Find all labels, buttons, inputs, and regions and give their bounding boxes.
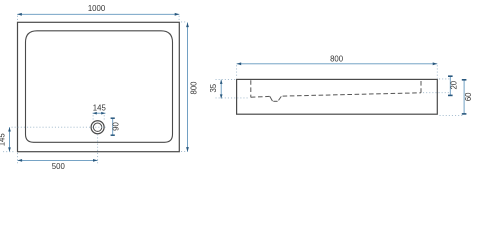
dim 35 bottom arrow <box>220 94 223 98</box>
dim 800 ext dotted bottom <box>181 150 187 152</box>
dim 500 right arrow <box>93 159 98 162</box>
dim 145h right arrow <box>101 112 105 115</box>
dim 800s right arrow <box>433 62 438 65</box>
svg-text:60: 60 <box>464 92 473 101</box>
dim 35 ext dotted bottom <box>216 97 250 99</box>
svg-text:500: 500 <box>52 162 66 171</box>
dim 800 side top: line <box>237 63 438 65</box>
outer tray rectangle <box>18 22 180 151</box>
dotted ext above drain right <box>103 115 105 120</box>
svg-text:800: 800 <box>189 81 198 95</box>
side dashed inner: notch up-slope <box>279 96 282 100</box>
dim 35: line <box>220 80 222 99</box>
svg-text:90: 90 <box>111 122 120 131</box>
inner basin rounded rectangle <box>26 31 173 143</box>
dim 35 top arrow <box>220 80 223 84</box>
svg-text:20: 20 <box>450 80 459 89</box>
svg-text:1000: 1000 <box>88 4 106 13</box>
drain outer circle <box>91 121 104 134</box>
side dashed inner: left vertical <box>250 80 252 97</box>
dim 20: line <box>449 76 451 95</box>
dim 1000 ext dotted left <box>17 16 19 21</box>
dim 20 ext dotted top <box>439 78 449 80</box>
drain inner circle <box>93 123 101 131</box>
dim 90 top end bar <box>111 117 115 119</box>
side dashed inner: floor left of notch <box>251 95 270 98</box>
centerline dotted horizontal through drain <box>12 126 108 128</box>
dim 500 left arrow <box>18 159 23 162</box>
dim 35 ext dotted top <box>216 79 236 81</box>
dim 800s left arrow <box>237 62 242 65</box>
dim 800 top arrow <box>186 23 189 28</box>
dim 800 bottom arrow <box>186 147 189 152</box>
dim 145h left arrow <box>93 112 97 115</box>
svg-text:145: 145 <box>0 133 7 147</box>
svg-text:35: 35 <box>209 83 218 92</box>
dim 1000 left arrow <box>17 13 22 16</box>
dim 20 ext dotted bottom <box>423 92 449 94</box>
dim 145 left side vertical: line <box>9 127 11 151</box>
dim 800s ext dotted left <box>236 65 238 78</box>
dim 800 ext dotted top <box>181 21 187 23</box>
dim 800 right side: line <box>187 23 189 152</box>
dim 145v top arrow <box>8 127 11 131</box>
dim 800s ext dotted right <box>436 65 438 78</box>
dim 90 bottom end bar <box>111 134 115 136</box>
side dashed inner: notch down-slope <box>270 96 273 101</box>
svg-text:145: 145 <box>93 104 107 113</box>
side dashed inner: floor slope right of notch <box>283 93 421 96</box>
side dashed inner: right vertical <box>420 80 422 93</box>
dim 20 bottom end bar <box>448 94 453 96</box>
dim 20 top end bar <box>448 75 453 77</box>
dim 60 ext dotted bottom <box>440 114 464 116</box>
dim 1000 right arrow <box>175 13 180 16</box>
dim 145v bottom arrow <box>8 147 11 151</box>
dim 60 bottom end bar <box>462 113 467 115</box>
dim 500 ext dotted left <box>17 153 19 163</box>
dim 1000 top: line <box>17 13 179 15</box>
centerline dotted vertical below drain <box>97 134 99 163</box>
dim 90 drain: line <box>112 118 114 135</box>
svg-text:800: 800 <box>330 55 344 64</box>
dim 60 top end bar <box>462 79 467 81</box>
side outer rectangle <box>237 79 438 114</box>
side dashed inner: notch flat bottom <box>273 100 277 102</box>
dim 60: line <box>463 80 465 114</box>
dim 1000 ext dotted right <box>178 16 180 21</box>
dotted ext above drain left <box>92 115 94 120</box>
dim 145v ext dotted bottom <box>3 151 16 153</box>
dim 500 bottom: line <box>18 159 98 161</box>
dim 145 above drain: line <box>93 112 106 114</box>
